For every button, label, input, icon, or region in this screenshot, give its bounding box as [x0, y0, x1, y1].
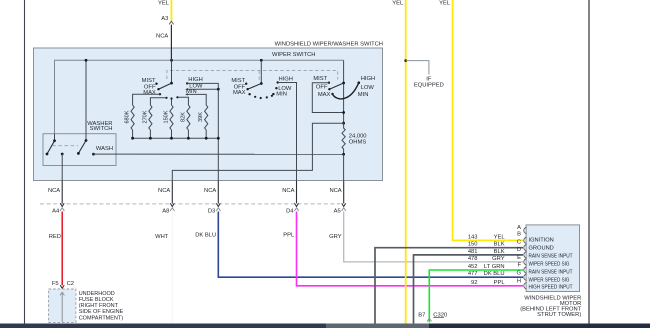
right page border — [588, 0, 590, 324]
washer output contact (to A4) — [61, 153, 64, 156]
wire YEL right feeder (to motor B) — [453, 0, 523, 240]
windshield wiper motor box — [526, 225, 579, 292]
SW1 LOW arrow — [185, 88, 188, 90]
svg-text:NCA: NCA — [158, 188, 170, 194]
svg-text:RAIN SENSE INPUT: RAIN SENSE INPUT — [529, 254, 573, 260]
svg-text:LT GRN: LT GRN — [484, 264, 505, 270]
svg-text:A4: A4 — [52, 208, 60, 214]
svg-text:143: 143 — [468, 234, 478, 240]
washer switch arm 2 contact — [77, 152, 80, 155]
svg-text:DK BLU: DK BLU — [484, 271, 505, 277]
pin A5 arrow — [342, 203, 346, 206]
SW2 position dot 3 — [266, 96, 268, 98]
svg-text:E: E — [517, 255, 521, 261]
SW1 OFF contact — [157, 88, 159, 90]
svg-text:NCA: NCA — [282, 188, 294, 194]
pin A5 mate chevron — [342, 208, 346, 211]
svg-text:NCA: NCA — [156, 33, 168, 39]
svg-text:FUSE BLOCK: FUSE BLOCK — [79, 297, 114, 303]
svg-text:39K: 39K — [198, 112, 204, 122]
motor pin B socket arc — [524, 237, 527, 244]
motor pin D socket arc — [524, 252, 527, 259]
wire BLK 150 (motor C to ground) — [375, 248, 523, 324]
svg-text:BLK: BLK — [494, 242, 505, 248]
svg-text:A: A — [517, 225, 521, 231]
svg-text:SWITCH: SWITCH — [90, 126, 113, 132]
pin D4 arrow — [295, 203, 299, 206]
wire RED (A4 to fuse block) — [61, 212, 63, 286]
svg-text:MIST: MIST — [313, 76, 327, 82]
svg-text:HIGH: HIGH — [279, 76, 294, 82]
resistor bottom rail — [133, 137, 219, 139]
bottom bar left segment — [0, 324, 326, 328]
svg-text:DK BLU: DK BLU — [195, 232, 216, 238]
wire washer output to pin A4 — [61, 154, 63, 181]
svg-text:92: 92 — [471, 280, 477, 286]
switch SW1 pivot feed wire — [171, 60, 173, 83]
SW2 position dot 2 — [260, 97, 262, 99]
wire PPL (D4 to motor H) — [297, 212, 524, 286]
wire DK BLU (D3 to motor G) — [218, 212, 523, 278]
svg-text:478: 478 — [468, 256, 478, 262]
svg-text:B: B — [517, 231, 521, 237]
svg-text:COMPARTMENT): COMPARTMENT) — [79, 315, 124, 321]
pin D4 stub wire — [296, 181, 298, 204]
svg-text:PPL: PPL — [283, 232, 295, 238]
svg-text:D: D — [517, 247, 521, 253]
svg-text:YEL: YEL — [494, 234, 506, 240]
wire SW1 LOW row — [187, 88, 218, 90]
resistor 82K — [177, 97, 190, 138]
resistor 150K — [170, 99, 173, 139]
svg-text:PPL: PPL — [494, 280, 506, 286]
switch SW2 arm — [248, 84, 262, 90]
SW2 LOW contact — [275, 87, 277, 89]
motor pin G socket arc — [524, 274, 527, 281]
left page border — [24, 0, 26, 324]
resistor 39K — [188, 94, 208, 138]
junction A8 line/column — [342, 122, 345, 125]
svg-text:HIGH: HIGH — [188, 77, 203, 83]
svg-text:WINDSHIELD WIPER/WASHER SWITCH: WINDSHIELD WIPER/WASHER SWITCH — [275, 42, 383, 48]
motor pin H socket arc — [524, 283, 527, 290]
SW1 HIGH contact — [186, 82, 188, 84]
motor pin E socket arc — [524, 259, 527, 266]
SW2 MAX contact — [248, 93, 250, 95]
node: top rail to washer feed — [85, 60, 87, 140]
svg-text:680K: 680K — [125, 110, 131, 123]
mechanical linkage drop switch2 — [258, 71, 260, 80]
pin A4 mate chevron — [60, 208, 64, 211]
resistor 270K — [149, 98, 167, 138]
SW3 OFF contact — [328, 88, 330, 90]
svg-text:EQUIPPED: EQUIPPED — [414, 82, 444, 88]
svg-text:MIN: MIN — [358, 92, 369, 98]
mechanical linkage dashed — [167, 71, 338, 80]
svg-text:LOW: LOW — [278, 86, 292, 92]
junction rail 680K — [131, 137, 134, 140]
svg-text:MAX: MAX — [233, 90, 246, 96]
wire YEL to A3 — [170, 0, 172, 21]
SW2 MIN contact — [272, 93, 274, 95]
svg-text:D4: D4 — [286, 208, 294, 214]
motor pin F socket arc — [524, 267, 527, 274]
svg-text:UNDERHOOD: UNDERHOOD — [79, 291, 115, 297]
SW2 OFF contact — [246, 88, 248, 90]
wire WASH to resistor bottom node — [94, 153, 344, 155]
svg-text:NCA: NCA — [204, 188, 216, 194]
switch SW1 arm — [159, 83, 172, 89]
resistor 680K — [131, 94, 160, 138]
washer switch box — [43, 134, 116, 166]
pin D3 mate chevron — [216, 208, 220, 211]
svg-text:150: 150 — [468, 242, 478, 248]
svg-text:RAIN SENSE INPUT: RAIN SENSE INPUT — [529, 269, 573, 275]
wire LT GRN (C320 to motor F) — [429, 270, 523, 323]
washer switch arm 1 — [47, 141, 55, 154]
SW2 position dot 1 — [254, 96, 256, 98]
washer switch contact upper-left — [53, 139, 56, 142]
svg-text:F: F — [517, 262, 521, 268]
wire WHT (invisible white) — [171, 212, 173, 324]
svg-text:D3: D3 — [208, 208, 215, 214]
junction rail 270K — [149, 137, 152, 140]
wire NCA A3 to switch — [170, 25, 172, 61]
RED arrow into fuse — [60, 285, 64, 288]
wire GRY (A5 to motor E) — [344, 212, 523, 262]
svg-text:YEL: YEL — [392, 0, 404, 6]
pin A8 stub wire — [171, 181, 173, 204]
wash contact — [92, 153, 95, 156]
svg-text:150K: 150K — [164, 110, 170, 123]
SW3 wiper arc — [333, 83, 359, 99]
svg-text:477: 477 — [468, 271, 478, 277]
if-equipped tap wire — [406, 61, 429, 75]
washer switch arm 2 — [78, 141, 86, 154]
svg-text:A3: A3 — [161, 16, 168, 22]
junction top rail switch2 feed — [260, 59, 263, 62]
pin A4 arrow — [60, 203, 64, 206]
switch SW3 pivot — [342, 82, 345, 85]
wire column to pin A5 — [343, 154, 345, 181]
pin A8 mate chevron — [170, 208, 174, 211]
svg-text:C: C — [517, 239, 521, 245]
svg-text:YEL: YEL — [158, 0, 170, 6]
junction rail 82K — [187, 137, 190, 140]
svg-text:H: H — [517, 278, 521, 284]
svg-text:OFF: OFF — [316, 85, 328, 91]
svg-text:B7: B7 — [418, 312, 425, 318]
svg-text:270K: 270K — [142, 110, 148, 123]
svg-text:NCA: NCA — [48, 188, 60, 194]
resistor 24000 ohms — [342, 123, 345, 154]
junction WASH/column — [342, 153, 345, 156]
svg-text:481: 481 — [468, 249, 478, 255]
svg-text:OHMS: OHMS — [349, 139, 367, 145]
SW1 MAX contact — [159, 93, 161, 95]
svg-text:STRUT TOWER): STRUT TOWER) — [537, 312, 581, 318]
pin A8 arrow — [170, 203, 174, 206]
SW3 MIST contact — [328, 82, 330, 84]
A3 mate chevron — [169, 21, 173, 24]
SW3 arc end contact — [358, 81, 361, 84]
svg-text:SIDE OF ENGINE: SIDE OF ENGINE — [79, 309, 124, 315]
fuse block internal arrow — [60, 292, 64, 295]
svg-text:MIN: MIN — [276, 91, 287, 97]
C320 mate chevron — [427, 318, 431, 321]
svg-text:82K: 82K — [180, 112, 186, 122]
junction rail D3 — [217, 137, 220, 140]
pin A5 stub wire — [343, 181, 345, 204]
svg-text:452: 452 — [468, 264, 478, 270]
wire SW3 MIST loop — [312, 83, 343, 113]
svg-text:GRY: GRY — [329, 234, 342, 240]
wire SW2 HIGH to pin D4 — [278, 83, 297, 181]
wiper switch left edge into washer box — [54, 134, 56, 141]
svg-text:C2: C2 — [67, 281, 74, 287]
wire pin A8 to column — [172, 123, 343, 181]
SW2 MIST contact — [245, 83, 247, 85]
svg-text:GRY: GRY — [492, 256, 505, 262]
switch SW3 arm — [329, 83, 343, 89]
SW1 position contact d — [176, 96, 178, 98]
switch SW2 pivot — [260, 82, 263, 85]
wire BLK 481 (motor D down) — [414, 255, 524, 324]
SW1 position contact b — [165, 97, 167, 99]
pin A4 stub wire — [61, 181, 63, 204]
svg-text:HIGH SPEED INPUT: HIGH SPEED INPUT — [529, 285, 573, 291]
SW1 position contact c — [170, 97, 172, 99]
SW2 position dot 4 — [271, 95, 273, 97]
svg-text:WIPER SPEED SIG: WIPER SPEED SIG — [529, 277, 570, 283]
junction MIST/column — [342, 111, 345, 114]
SW2 HIGH contact — [277, 81, 279, 83]
SW1 MIN arrow — [185, 93, 188, 95]
wire D3 column in box — [217, 89, 219, 181]
junction top rail A3 feed — [170, 59, 173, 62]
svg-text:MAX: MAX — [318, 92, 331, 98]
pin D4 mate chevron — [294, 208, 298, 211]
bottom bar middle segment — [326, 324, 429, 328]
svg-text:WIPER SWITCH: WIPER SWITCH — [272, 52, 315, 58]
svg-text:WASH: WASH — [96, 146, 113, 152]
washer switch contact upper-right — [85, 139, 88, 142]
switch SW1 pivot — [170, 82, 173, 85]
junction LOW/D3 — [217, 88, 220, 91]
svg-text:WHT: WHT — [155, 234, 169, 240]
svg-text:WIPER SPEED SIG: WIPER SPEED SIG — [529, 262, 570, 268]
windshield wiper/washer switch box — [34, 48, 383, 181]
svg-text:GROUND: GROUND — [529, 246, 554, 252]
connector dashed line — [40, 203, 340, 205]
washer switch arm 1 contact — [46, 153, 49, 156]
svg-text:A5: A5 — [334, 208, 341, 214]
svg-text:IGNITION: IGNITION — [529, 237, 554, 243]
svg-text:LOW: LOW — [361, 85, 375, 91]
pin D3 arrow — [216, 203, 220, 206]
svg-text:(RIGHT FRONT: (RIGHT FRONT — [79, 303, 119, 309]
svg-text:G: G — [516, 270, 521, 276]
svg-text:MAX: MAX — [143, 90, 156, 96]
if-equipped tap junction — [404, 59, 407, 62]
svg-text:HIGH: HIGH — [361, 76, 376, 82]
bottom bar right segment — [429, 324, 650, 328]
motor pin A socket arc — [524, 227, 527, 234]
svg-text:RED: RED — [49, 234, 61, 240]
svg-text:NCA: NCA — [329, 188, 341, 194]
svg-text:A8: A8 — [162, 208, 169, 214]
wire SW1 HIGH to D3 column — [187, 83, 218, 89]
junction rail 39K — [205, 137, 208, 140]
switch SW3 feed / right column wire — [343, 60, 345, 123]
SW3 MAX contact — [331, 93, 333, 95]
switch SW2 pivot feed wire — [260, 60, 262, 83]
junction rail 150K — [170, 137, 173, 140]
pin D3 stub wire — [217, 181, 219, 204]
svg-text:F5: F5 — [52, 281, 59, 287]
underhood fuse block box — [49, 289, 76, 322]
svg-text:BLK: BLK — [494, 249, 505, 255]
SW1 MIST contact — [155, 83, 157, 85]
wire YEL left feeder — [405, 0, 407, 324]
washer switch linkage dashed — [52, 145, 78, 147]
svg-text:MIST: MIST — [142, 78, 156, 84]
wiper switch top rail — [55, 60, 344, 133]
junction top rail washer — [85, 59, 88, 62]
svg-text:MIST: MIST — [231, 78, 245, 84]
svg-text:YEL: YEL — [439, 0, 451, 6]
motor pin C socket arc — [524, 244, 527, 251]
